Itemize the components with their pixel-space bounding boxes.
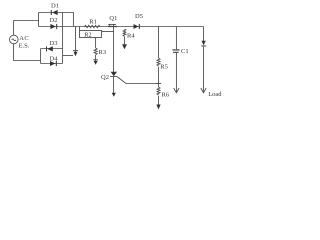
svg-text:C1: C1 (181, 48, 189, 55)
svg-text:R4: R4 (127, 33, 135, 40)
svg-text:D4: D4 (50, 55, 59, 62)
svg-text:E.S.: E.S. (19, 43, 30, 50)
svg-text:D3: D3 (50, 40, 58, 47)
svg-text:Q1: Q1 (109, 15, 117, 22)
svg-text:D5: D5 (135, 13, 143, 20)
svg-text:D2: D2 (50, 17, 58, 24)
svg-text:D1: D1 (51, 3, 59, 10)
svg-text:Load: Load (208, 91, 222, 98)
svg-text:AC: AC (19, 35, 29, 42)
svg-text:R1: R1 (89, 18, 97, 25)
svg-text:Q2: Q2 (101, 74, 109, 81)
svg-text:R6: R6 (162, 91, 170, 98)
svg-text:R2: R2 (84, 32, 91, 38)
svg-text:R5: R5 (160, 64, 168, 71)
svg-text:R3: R3 (99, 49, 107, 56)
